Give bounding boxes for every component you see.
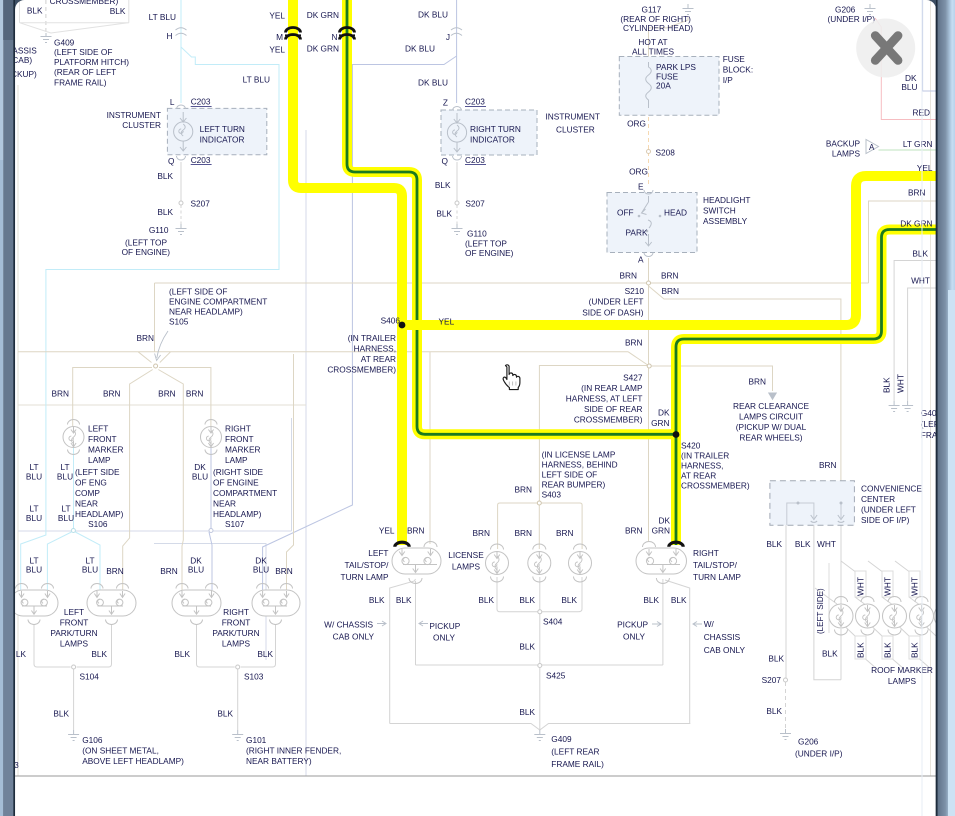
svg-text:BLK: BLK <box>435 180 451 190</box>
wire BLK S103 to G101 <box>237 669 239 730</box>
svg-text:BLK: BLK <box>396 595 412 605</box>
svg-text:G117: G117 <box>642 5 662 15</box>
svg-text:PARK/TURN: PARK/TURN <box>50 628 97 638</box>
svg-text:ABOVE LEFT HEADLAMP): ABOVE LEFT HEADLAMP) <box>82 756 184 766</box>
svg-text:YEL: YEL <box>379 526 395 536</box>
svg-text:NEAR HEADLAMP): NEAR HEADLAMP) <box>169 307 243 317</box>
svg-text:S420: S420 <box>681 441 701 451</box>
svg-text:CAB ONLY: CAB ONLY <box>333 632 375 642</box>
svg-text:OF ENGINE): OF ENGINE) <box>465 248 514 258</box>
svg-text:M: M <box>276 32 283 42</box>
svg-text:DK: DK <box>658 408 670 418</box>
svg-text:PICKUP: PICKUP <box>617 620 648 630</box>
convenience center box <box>770 481 855 526</box>
wire BRN S427 stub to rear clearance arrow <box>649 366 773 391</box>
ground BLK right edge <box>889 401 900 412</box>
wire RED top right <box>875 18 937 120</box>
svg-text:BLK: BLK <box>27 6 43 16</box>
svg-text:S427: S427 <box>623 373 643 383</box>
lamp license 3 <box>569 544 592 582</box>
svg-text:HARNESS, AT LEFT: HARNESS, AT LEFT <box>566 394 643 404</box>
mouse cursor hand <box>503 365 520 390</box>
svg-text:WHT: WHT <box>856 577 866 596</box>
svg-text:BLK: BLK <box>671 595 687 605</box>
svg-text:OF ENG: OF ENG <box>75 478 107 488</box>
pale group box front A <box>18 418 291 531</box>
svg-text:(LEFT SIDE OF: (LEFT SIDE OF <box>169 287 227 297</box>
svg-text:BLU: BLU <box>82 565 98 575</box>
svg-text:ENGINE COMPARTMENT: ENGINE COMPARTMENT <box>169 297 267 307</box>
svg-text:MARKER: MARKER <box>88 445 124 455</box>
svg-text:TAIL/STOP/: TAIL/STOP/ <box>345 560 390 570</box>
svg-text:RIGHT: RIGHT <box>223 607 249 617</box>
wire LT BLU branch to front lamps <box>21 47 279 590</box>
splice S107 <box>209 529 213 533</box>
svg-text:ALL TIMES: ALL TIMES <box>632 47 674 57</box>
lamp left front park/turn <box>10 584 58 625</box>
ground WHT right edge <box>902 401 913 412</box>
section divider horizontal <box>18 404 306 406</box>
svg-text:(UNDER I/P): (UNDER I/P) <box>828 14 876 24</box>
svg-text:REAR BUMPER): REAR BUMPER) <box>542 480 606 490</box>
svg-text:E: E <box>638 182 644 192</box>
svg-text:BACKUP: BACKUP <box>826 139 861 149</box>
wire ORG fuse to headlight switch <box>648 110 650 186</box>
svg-text:BRN: BRN <box>819 460 837 470</box>
svg-text:BLK: BLK <box>912 249 928 259</box>
svg-text:BLK: BLK <box>519 642 535 652</box>
svg-text:BRN: BRN <box>106 566 124 576</box>
svg-text:BLU: BLU <box>26 565 42 575</box>
svg-text:BRN: BRN <box>619 271 637 281</box>
svg-text:(LEFT SIDE): (LEFT SIDE) <box>816 588 825 634</box>
svg-text:20A: 20A <box>656 81 671 91</box>
svg-text:PARK LPS: PARK LPS <box>656 62 696 72</box>
svg-text:SWITCH: SWITCH <box>703 206 736 216</box>
svg-text:(IN REAR LAMP: (IN REAR LAMP <box>581 383 643 393</box>
svg-text:BRN: BRN <box>625 338 643 348</box>
svg-text:(LEFT SIDE: (LEFT SIDE <box>75 467 120 477</box>
splice S104 <box>72 665 76 669</box>
splice S106 <box>71 529 75 533</box>
svg-text:CHASSIS: CHASSIS <box>704 632 741 642</box>
wire BLK S207 dashed to G206 <box>785 682 787 729</box>
svg-text:BLK: BLK <box>795 539 811 549</box>
svg-text:FRONT: FRONT <box>88 434 117 444</box>
svg-text:TAIL/STOP/: TAIL/STOP/ <box>693 560 738 570</box>
arrow S105 pointer <box>155 331 168 361</box>
svg-text:BLU: BLU <box>188 565 204 575</box>
svg-text:S208: S208 <box>656 148 676 158</box>
svg-text:LEFT: LEFT <box>64 607 84 617</box>
splice S208 <box>647 150 651 154</box>
svg-text:(ON SHEET METAL,: (ON SHEET METAL, <box>82 746 159 756</box>
wire LT GRN backup lamps <box>879 149 938 151</box>
wire BRN long horizontal through S210 <box>155 282 869 284</box>
svg-text:S404: S404 <box>543 617 563 627</box>
svg-text:(UNDER LEFT: (UNDER LEFT <box>589 297 644 307</box>
svg-text:PICKUP: PICKUP <box>429 621 460 631</box>
svg-text:(REAR OF LEFT: (REAR OF LEFT <box>54 67 116 77</box>
terminal black arc left tail lamp <box>395 542 409 547</box>
wire BLK right tail lamp to rail <box>663 579 690 724</box>
svg-text:LAMPS: LAMPS <box>452 562 481 572</box>
svg-text:I/P: I/P <box>723 75 734 85</box>
svg-text:BLK: BLK <box>91 649 107 659</box>
svg-text:MARKER: MARKER <box>225 445 261 455</box>
svg-text:LT: LT <box>29 462 38 472</box>
svg-text:PLATFORM HITCH): PLATFORM HITCH) <box>54 57 129 67</box>
connector C203 Q right arc <box>453 156 462 160</box>
svg-text:BLOCK:: BLOCK: <box>723 65 753 75</box>
svg-text:WHT: WHT <box>910 577 920 596</box>
splice S403 <box>537 501 541 505</box>
ground G110 left <box>176 224 187 235</box>
wire roof marker lamp diagonals BLK <box>845 626 937 669</box>
svg-text:SIDE OF I/P): SIDE OF I/P) <box>861 515 910 525</box>
svg-text:BRN: BRN <box>51 389 69 399</box>
svg-text:CROSSMEMBER): CROSSMEMBER) <box>50 0 119 6</box>
svg-text:FRONT: FRONT <box>60 618 89 628</box>
svg-text:S105: S105 <box>169 317 189 327</box>
wire BLK from page edge to ground <box>894 261 937 402</box>
svg-text:LAMPS: LAMPS <box>222 639 251 649</box>
svg-text:DK BLU: DK BLU <box>418 10 448 20</box>
highlighted wire DK GRN green core left <box>347 0 676 545</box>
svg-text:A: A <box>869 143 875 152</box>
svg-text:LAMPS: LAMPS <box>60 639 89 649</box>
svg-text:S425: S425 <box>546 671 566 681</box>
instrument cluster box right turn indicator <box>441 110 537 155</box>
svg-text:AT REAR: AT REAR <box>681 471 716 481</box>
svg-text:LAMP: LAMP <box>88 455 111 465</box>
svg-text:LK: LK <box>16 649 27 659</box>
svg-text:FRONT: FRONT <box>225 434 254 444</box>
lamp roof marker 2 <box>856 597 880 636</box>
svg-text:OF ENGINE: OF ENGINE <box>213 478 259 488</box>
svg-text:(LEFT SIDE OF: (LEFT SIDE OF <box>54 47 112 57</box>
lamp license 1 <box>486 544 509 582</box>
svg-text:S403: S403 <box>542 490 562 500</box>
splice S425 <box>538 664 542 668</box>
svg-text:ORG: ORG <box>629 167 648 177</box>
splice S427 <box>647 364 651 368</box>
svg-text:(LEFT TOP: (LEFT TOP <box>465 239 507 249</box>
svg-text:BLK: BLK <box>882 377 892 393</box>
wire DK BLU top right <box>923 0 937 91</box>
svg-text:Z: Z <box>443 98 448 108</box>
svg-text:BLK: BLK <box>217 709 233 719</box>
svg-text:BRN: BRN <box>275 566 293 576</box>
svg-text:TURN LAMP: TURN LAMP <box>693 572 741 582</box>
svg-text:HEADLAMP): HEADLAMP) <box>213 509 262 519</box>
arrow PICKUP left <box>419 621 428 626</box>
svg-text:BRN: BRN <box>158 389 176 399</box>
ground G409 rear <box>534 730 545 741</box>
svg-text:BRN: BRN <box>514 528 532 538</box>
wire BRN from page edge down to S210 row <box>869 201 938 283</box>
svg-text:(PICKUP W/ DUAL: (PICKUP W/ DUAL <box>736 422 807 432</box>
svg-text:G206: G206 <box>835 5 856 15</box>
arrow rear clearance circuit <box>768 393 777 401</box>
svg-text:FRAME RAIL): FRAME RAIL) <box>54 78 107 88</box>
highlighted wire YEL main path <box>285 0 937 547</box>
wire BRN S210 bracket to convenience center <box>649 286 841 481</box>
svg-text:(LEFT TOP: (LEFT TOP <box>125 238 167 248</box>
wire BRN S427 to left tail lamp <box>429 352 431 544</box>
svg-text:CAB ONLY: CAB ONLY <box>704 645 746 655</box>
splice S210 <box>647 281 651 285</box>
lamp roof marker 3 <box>883 597 907 636</box>
svg-text:G409: G409 <box>54 38 75 48</box>
wire LT BLU from H to C203-L <box>180 0 182 103</box>
ground G206 top <box>865 4 876 15</box>
wire BLK left tail lamp to rail <box>390 579 416 724</box>
svg-text:BLU: BLU <box>901 82 917 92</box>
svg-text:LEFT SIDE OF: LEFT SIDE OF <box>542 470 598 480</box>
instrument cluster box left turn indicator <box>167 108 266 154</box>
svg-text:CYLINDER HEAD): CYLINDER HEAD) <box>623 23 693 33</box>
wire roof marker lamp diagonals WHT <box>815 561 919 604</box>
svg-text:LT: LT <box>29 504 38 514</box>
svg-text:COMP: COMP <box>75 488 100 498</box>
svg-text:BLK: BLK <box>174 649 190 659</box>
wire WHT convenience center to roof marker lamps <box>814 525 841 680</box>
svg-text:CAB): CAB) <box>12 55 32 65</box>
svg-text:INSTRUMENT: INSTRUMENT <box>546 112 600 122</box>
svg-text:BLU: BLU <box>26 472 42 482</box>
svg-text:G409: G409 <box>551 734 572 744</box>
connector C203 Q arc <box>177 156 186 160</box>
connector A arc <box>644 253 653 257</box>
svg-text:BLK: BLK <box>910 642 920 658</box>
svg-text:S207: S207 <box>762 675 782 685</box>
right edge bar <box>927 0 955 816</box>
svg-text:LT BLU: LT BLU <box>149 12 176 22</box>
wire BRN long rail y352 <box>18 352 649 366</box>
wire BRN G117 bracket <box>649 17 689 28</box>
svg-text:CLUSTER: CLUSTER <box>122 120 161 130</box>
bottom rule <box>15 775 937 777</box>
svg-text:BLK: BLK <box>766 706 782 716</box>
wire BRN S403 bracket to license lamps <box>498 503 582 549</box>
svg-text:BLU: BLU <box>192 472 208 482</box>
svg-text:LEFT: LEFT <box>88 424 108 434</box>
svg-text:W/ CHASSIS: W/ CHASSIS <box>324 620 373 630</box>
lamp roof marker 1 <box>829 597 853 636</box>
svg-text:BLK: BLK <box>519 707 535 717</box>
svg-text:LEFT: LEFT <box>368 548 388 558</box>
svg-text:BLK: BLK <box>157 207 173 217</box>
svg-text:S207: S207 <box>465 199 485 209</box>
svg-text:BRN: BRN <box>472 528 490 538</box>
ground G101 <box>232 730 243 741</box>
svg-text:(IN TRAILER: (IN TRAILER <box>348 333 396 343</box>
splice S404 <box>538 610 542 614</box>
svg-text:BLU: BLU <box>253 565 269 575</box>
connector M black arcs <box>286 28 301 40</box>
svg-text:S103: S103 <box>244 672 264 682</box>
svg-text:REAR CLEARANCE: REAR CLEARANCE <box>733 401 810 411</box>
inner light divider line right <box>921 0 923 816</box>
svg-text:BRN: BRN <box>186 389 204 399</box>
svg-text:YEL: YEL <box>917 163 933 173</box>
svg-text:WHT: WHT <box>817 539 836 549</box>
svg-text:LAMP: LAMP <box>225 455 248 465</box>
arrow W/CHASSIS right <box>693 622 702 627</box>
svg-text:(RIGHT SIDE: (RIGHT SIDE <box>213 467 264 477</box>
svg-text:YEL: YEL <box>439 317 455 327</box>
wire BRN S105 fan front lamps <box>73 354 294 590</box>
svg-text:BRN: BRN <box>662 286 680 296</box>
svg-text:RIGHT: RIGHT <box>225 424 251 434</box>
svg-text:(LEFT REAR: (LEFT REAR <box>551 747 599 757</box>
wire LT BLU left marker to S106 to lamp <box>47 448 100 590</box>
wire BLK front park lamps to S103 <box>197 624 276 667</box>
svg-text:BLK: BLK <box>157 171 173 181</box>
lamp left turn indicator <box>174 122 193 141</box>
lamp left front marker <box>63 420 84 455</box>
svg-text:BLK: BLK <box>478 595 494 605</box>
svg-text:BLK: BLK <box>883 642 893 658</box>
svg-text:INDICATOR: INDICATOR <box>200 135 245 145</box>
svg-text:HEADLIGHT: HEADLIGHT <box>703 195 750 205</box>
svg-text:OFF: OFF <box>617 208 634 218</box>
svg-text:(IN LICENSE LAMP: (IN LICENSE LAMP <box>542 450 616 460</box>
svg-text:DK BLU: DK BLU <box>418 78 448 88</box>
svg-text:DK GRN: DK GRN <box>900 219 932 229</box>
svg-text:CLUSTER: CLUSTER <box>556 125 595 135</box>
wire BLK convenience center to S207 <box>785 525 787 678</box>
svg-text:COMPARTMENT: COMPARTMENT <box>213 488 277 498</box>
connector H arcs <box>176 28 187 36</box>
svg-text:LEFT TURN: LEFT TURN <box>200 124 245 134</box>
connector J arcs <box>451 28 462 36</box>
arrow W/CHASSIS left <box>377 621 386 626</box>
pale group box front B <box>154 544 266 661</box>
svg-text:WHT: WHT <box>883 577 893 596</box>
wire BLK bottom rail to G409 ground <box>390 724 691 731</box>
svg-text:INSTRUMENT: INSTRUMENT <box>107 110 161 120</box>
svg-text:BLU: BLU <box>26 513 42 523</box>
svg-text:(UNDER I/P): (UNDER I/P) <box>795 749 843 759</box>
splice S103 <box>236 665 240 669</box>
svg-text:S406: S406 <box>381 316 401 326</box>
svg-text:ROOF MARKER: ROOF MARKER <box>871 665 933 675</box>
svg-text:DK BLU: DK BLU <box>405 44 435 54</box>
svg-text:BLK: BLK <box>257 649 273 659</box>
svg-text:BRN: BRN <box>556 528 574 538</box>
svg-text:HEAD: HEAD <box>664 208 687 218</box>
headlight switch assembly box <box>607 190 697 257</box>
svg-text:DK: DK <box>194 462 206 472</box>
svg-text:SIDE OF REAR: SIDE OF REAR <box>584 404 643 414</box>
splice S207 right <box>455 201 459 205</box>
connector C203 Z arc <box>453 107 462 111</box>
svg-text:WHT: WHT <box>911 276 930 286</box>
svg-text:G206: G206 <box>798 737 819 747</box>
lamp left front park/turn 2 <box>87 584 136 625</box>
wire BRN headlight switch A to S210 to S427 to right tail lamp <box>648 258 650 541</box>
svg-text:G110: G110 <box>149 225 169 235</box>
splice S105 <box>154 364 158 368</box>
svg-text:BRN: BRN <box>160 566 178 576</box>
svg-text:DK GRN: DK GRN <box>307 44 339 54</box>
page border right <box>930 0 932 776</box>
svg-text:ASSEMBLY: ASSEMBLY <box>703 216 748 226</box>
splice S420 dot <box>673 431 680 438</box>
svg-text:CENTER: CENTER <box>861 494 895 504</box>
svg-text:YEL: YEL <box>269 11 285 21</box>
wire BRN front feed vertical <box>154 283 156 352</box>
svg-text:FUSE: FUSE <box>723 54 746 64</box>
triangle connector A backup lamps <box>866 140 879 154</box>
svg-text:WHT: WHT <box>896 374 906 393</box>
svg-text:DK: DK <box>658 516 670 526</box>
lamp right tail/stop/turn <box>636 542 687 584</box>
wire BLK right cluster Q to S207 to G110 <box>456 162 458 201</box>
svg-text:BLK: BLK <box>519 595 535 605</box>
svg-text:(RIGHT INNER FENDER,: (RIGHT INNER FENDER, <box>246 746 341 756</box>
svg-text:GRN: GRN <box>652 526 670 536</box>
svg-text:BRN: BRN <box>625 526 643 536</box>
svg-text:BLK: BLK <box>856 642 866 658</box>
svg-text:H: H <box>167 31 173 41</box>
svg-text:Q: Q <box>168 156 175 166</box>
svg-text:PARK/TURN: PARK/TURN <box>212 628 259 638</box>
lamp right turn indicator <box>447 123 466 142</box>
svg-text:N: N <box>332 32 338 42</box>
ground G206 rear <box>780 729 791 740</box>
svg-text:C203: C203 <box>465 155 485 165</box>
svg-text:W/: W/ <box>704 619 715 629</box>
svg-text:HARNESS,: HARNESS, <box>354 344 396 354</box>
svg-text:S104: S104 <box>80 672 100 682</box>
svg-text:BRN: BRN <box>103 389 121 399</box>
svg-text:BLK: BLK <box>643 595 659 605</box>
svg-text:LICENSE: LICENSE <box>448 550 484 560</box>
svg-text:A: A <box>638 255 644 265</box>
svg-text:CONVENIENCE: CONVENIENCE <box>861 484 922 494</box>
svg-text:RIGHT TURN: RIGHT TURN <box>470 124 521 134</box>
svg-text:C203: C203 <box>465 97 485 107</box>
fuse block box <box>619 57 719 116</box>
svg-text:S106: S106 <box>88 519 108 529</box>
wire BRN into fuse block <box>648 28 650 62</box>
svg-text:BRN: BRN <box>407 526 425 536</box>
svg-text:INDICATOR: INDICATOR <box>470 135 515 145</box>
svg-text:HOT AT: HOT AT <box>638 37 667 47</box>
svg-text:S107: S107 <box>225 519 245 529</box>
svg-text:(UNDER LEFT: (UNDER LEFT <box>861 505 916 515</box>
svg-text:BRN: BRN <box>908 188 926 198</box>
svg-text:G106: G106 <box>82 735 103 745</box>
svg-text:LAMPS CIRCUIT: LAMPS CIRCUIT <box>739 412 803 422</box>
svg-text:LT: LT <box>61 504 70 514</box>
wire BLK front park lamps to S104 <box>34 624 112 667</box>
svg-text:LAMPS: LAMPS <box>888 676 917 686</box>
svg-text:BLK: BLK <box>53 709 69 719</box>
terminal black arc right tail lamp <box>669 542 683 547</box>
svg-text:HARNESS, BEHIND: HARNESS, BEHIND <box>542 460 618 470</box>
highlighted wire YEL branch S406 to page edge <box>402 176 937 325</box>
svg-text:DK GRN: DK GRN <box>307 10 339 20</box>
svg-text:NEAR: NEAR <box>213 499 236 509</box>
svg-text:C203: C203 <box>191 155 211 165</box>
svg-text:BLK: BLK <box>768 654 784 664</box>
svg-text:Q: Q <box>442 156 449 166</box>
svg-text:BRN: BRN <box>514 485 532 495</box>
